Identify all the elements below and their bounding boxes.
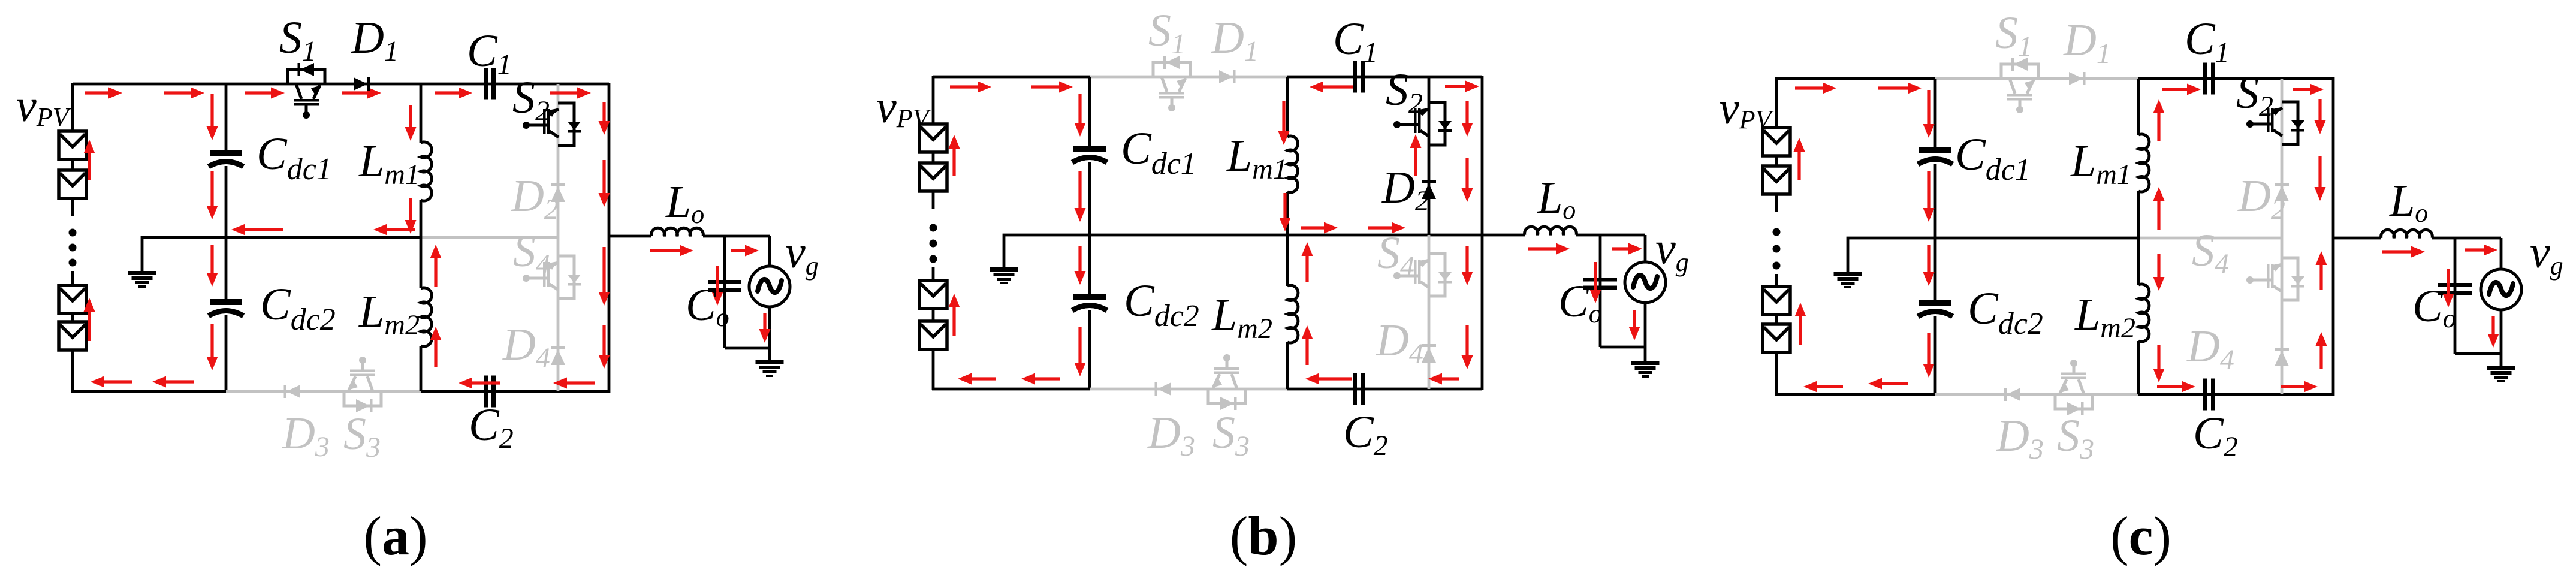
svg-text:(c): (c) [2110, 505, 2171, 566]
svg-text:(b): (b) [1230, 505, 1297, 566]
svg-text:(a): (a) [363, 505, 427, 566]
